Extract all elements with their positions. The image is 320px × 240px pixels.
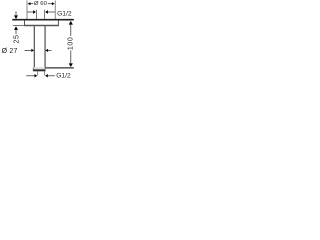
escutcheon right edge	[57, 20, 59, 25]
escutcheon left edge	[24, 20, 26, 25]
svg-text:100: 100	[67, 37, 75, 51]
top dim arrow left	[28, 2, 31, 5]
nut body	[33, 67, 45, 69]
top dim extension line left	[26, 1, 28, 20]
bottom G1/2 right arrow (points left)	[48, 75, 55, 77]
top stub left line	[35, 10, 37, 19]
pipe right wall	[44, 26, 46, 67]
bottom thread stub right	[44, 71, 46, 75]
left dim upper leader	[15, 11, 17, 15]
top dim extension line right	[54, 1, 56, 20]
right dim line upper	[70, 25, 72, 36]
bottom thread stub left	[37, 71, 39, 75]
Ø 27 right arrow (points left at pipe)	[48, 49, 51, 51]
left dim arrow down	[14, 15, 18, 19]
left dim extension line	[13, 25, 25, 27]
Ø 27 arrow (points right at pipe)	[25, 49, 32, 51]
left dim arrow up	[14, 26, 18, 30]
top dim line right segment	[48, 3, 52, 5]
top stub right line	[44, 10, 46, 19]
svg-text:Ø 27: Ø 27	[2, 48, 18, 55]
svg-text:G1/2: G1/2	[57, 11, 72, 18]
right dim arrow up	[69, 21, 73, 25]
bottom extension line	[45, 67, 73, 69]
bottom G1/2 left arrow (points right)	[26, 75, 35, 77]
right dim line lower	[70, 50, 72, 63]
escutcheon bottom edge	[24, 25, 59, 27]
nut right side	[44, 67, 46, 70]
top G1/2 dim arrow left (points right)	[27, 11, 33, 13]
left dim lower leader	[15, 30, 17, 35]
nut left side	[32, 67, 34, 70]
ceiling line	[12, 19, 74, 21]
svg-text:G1/2: G1/2	[56, 73, 71, 80]
nut dark bottom	[33, 69, 46, 71]
svg-text:25: 25	[12, 35, 20, 44]
right dim arrow down	[69, 63, 73, 67]
top dim line left segment	[30, 3, 33, 5]
top G1/2 dim arrow right (points left)	[48, 11, 55, 13]
svg-text:Ø 60: Ø 60	[34, 1, 48, 7]
top dim arrow right	[52, 2, 55, 5]
pipe left wall	[33, 26, 35, 67]
